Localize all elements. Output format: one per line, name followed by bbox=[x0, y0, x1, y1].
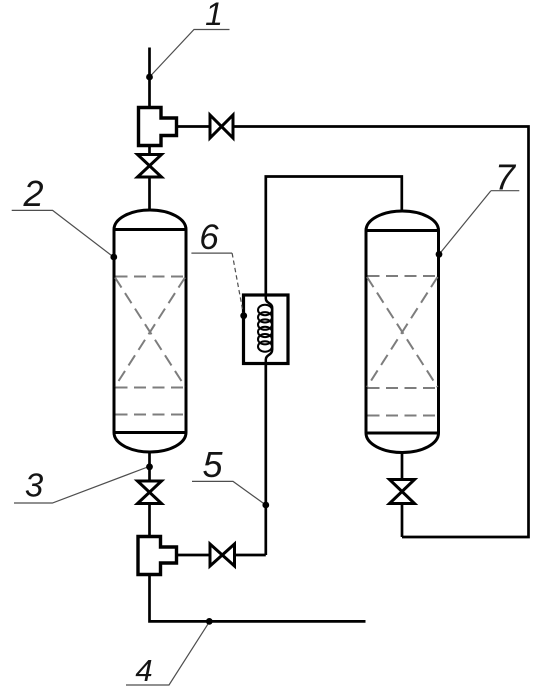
svg-text:7: 7 bbox=[495, 157, 517, 198]
svg-text:6: 6 bbox=[199, 218, 219, 257]
svg-text:4: 4 bbox=[135, 653, 152, 688]
svg-text:1: 1 bbox=[205, 0, 223, 32]
svg-text:2: 2 bbox=[22, 173, 43, 214]
svg-text:5: 5 bbox=[202, 444, 223, 485]
svg-text:3: 3 bbox=[25, 467, 44, 504]
